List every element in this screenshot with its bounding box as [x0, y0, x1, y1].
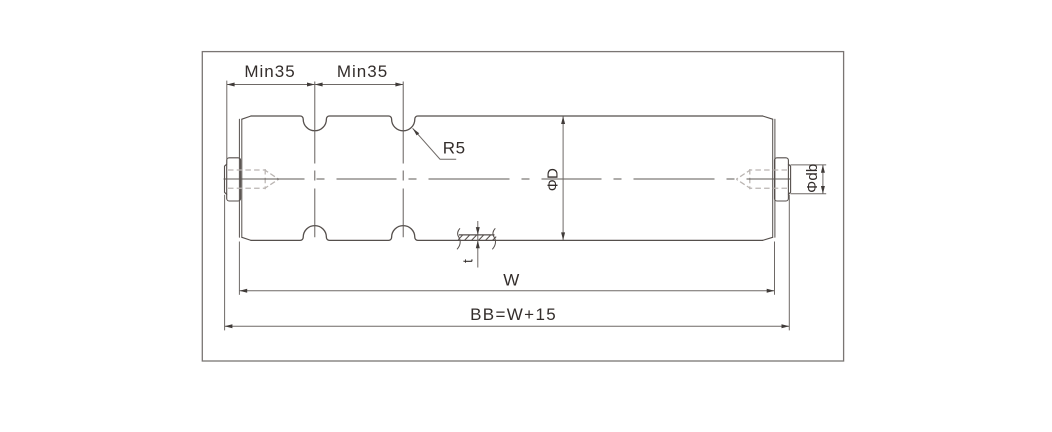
right shaft end [788, 164, 790, 194]
Min35 dim 1 right arrow [307, 83, 315, 87]
t dim line [477, 221, 479, 268]
hatch line 3 [472, 235, 477, 241]
svg-text:R5: R5 [443, 138, 466, 157]
R5 arrow [413, 128, 420, 135]
center line horizontal [224, 178, 791, 180]
left shaft end [225, 164, 227, 194]
left hidden shaft inner end [264, 169, 266, 189]
BB right extension [788, 195, 790, 331]
extension + dimension lines [225, 81, 827, 331]
tube bottom edge with grooves [251, 226, 763, 241]
right bearing housing [775, 158, 789, 201]
svg-text:BB=W+15: BB=W+15 [470, 305, 557, 324]
Phidb ext top [791, 164, 827, 166]
Phidb dim top arrow [821, 165, 825, 173]
left end chamfer bottom [242, 237, 251, 240]
W right extension [774, 242, 776, 295]
svg-text:ΦD: ΦD [545, 168, 562, 191]
W left extension [238, 242, 240, 295]
t section: inner wall line [459, 234, 495, 236]
Min35 dim 2 left arrow [315, 83, 323, 87]
hatch line 5 [486, 235, 491, 241]
break line right [492, 228, 495, 249]
right end chamfer bottom [763, 237, 773, 240]
Phidb dim bottom arrow [821, 186, 825, 194]
left hidden shaft bottom [228, 187, 265, 189]
hatch line 4 [479, 235, 484, 241]
border frame [202, 52, 843, 361]
BB dim right arrow [782, 324, 790, 328]
left bearing housing [227, 158, 241, 201]
right hidden shaft tip upper [736, 170, 750, 179]
roller tube outline [225, 116, 791, 240]
hidden shaft lines (dashed light) [228, 169, 787, 189]
t dim top arrow [476, 227, 480, 235]
R5 leader [413, 128, 457, 159]
hatch line 1 [458, 235, 463, 240]
break line left [457, 228, 460, 249]
hatch line 6 [493, 237, 497, 241]
left end chamfer top [242, 116, 251, 119]
arrowheads (filled) [225, 83, 825, 329]
svg-text:Φdb: Φdb [804, 164, 821, 193]
Min35 dim line 2 [315, 84, 403, 86]
svg-text:t: t [459, 259, 475, 263]
PhiD dim line [562, 117, 564, 240]
t dim bottom arrow [476, 240, 480, 248]
left end face lines [239, 119, 241, 237]
svg-text:Min35: Min35 [244, 62, 295, 81]
t section break lines [457, 228, 495, 249]
Min35 left extension [226, 81, 228, 164]
left hidden shaft [228, 169, 265, 171]
W dim line [239, 290, 774, 292]
BB dim left arrow [225, 324, 233, 328]
W dim left arrow [239, 289, 247, 293]
svg-text:W: W [503, 270, 519, 289]
groove centerline 1 [314, 82, 316, 238]
right hidden shaft [750, 169, 787, 171]
PhiD dim top arrow [561, 116, 565, 124]
tube top edge with grooves [251, 116, 763, 131]
BB dim line [225, 325, 790, 327]
right hidden shaft inner end [749, 169, 751, 189]
right hidden shaft bottom [750, 187, 787, 189]
svg-text:Min35: Min35 [337, 62, 388, 81]
Phidb ext bottom [791, 193, 827, 195]
right end chamfer top [763, 116, 773, 119]
left hidden shaft tip lower [265, 179, 279, 188]
left hidden shaft tip upper [265, 170, 279, 179]
Min35 dim line 1 [227, 84, 315, 86]
Phidb dim line [822, 165, 824, 194]
right hidden shaft tip lower [736, 179, 750, 188]
BB left extension [224, 195, 226, 331]
PhiD dim bottom arrow [561, 232, 565, 240]
W dim right arrow [767, 289, 775, 293]
groove centerline 2 [402, 82, 404, 238]
Min35 dim 2 right arrow [395, 83, 403, 87]
right end face lines [773, 119, 775, 237]
hatch line 2 [465, 235, 470, 241]
t section hatch [458, 235, 496, 241]
Min35 dim 1 left arrow [227, 83, 235, 87]
